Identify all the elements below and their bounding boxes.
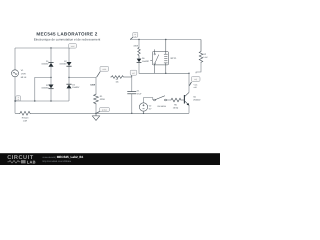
node junction (14,101) [14,100,15,101]
svg-text:1N4007: 1N4007 [72,86,80,89]
svg-text:D5: D5 [142,57,146,60]
wire col2 mid to load [69,77,96,93]
svg-text:LAB: LAB [27,160,36,165]
label Q1 [193,95,201,101]
svg-text:60 Hz: 60 Hz [21,76,27,79]
svg-text:Rshunt: Rshunt [22,116,29,119]
wire left vertical top [14,48,16,70]
svg-text:170V: 170V [21,73,27,76]
resistor R3 (horizontal, mid) [110,76,131,79]
wire top-left rail [15,47,69,49]
svg-text:10 kΩ: 10 kΩ [173,107,179,110]
svg-text:630R: 630R [100,98,105,101]
node junction (139,39.5) [138,39,139,40]
resistor R1 (load, vertical zigzag) [94,94,99,105]
svg-text:1N4007: 1N4007 [59,63,67,66]
diode D4 (bridge col2 bottom, pointing up) [66,84,71,101]
label D5 [142,57,150,63]
node junction (51,101) [50,100,51,101]
diode D2 (bridge col2 top, pointing down) [66,48,71,84]
logo zigzag [8,161,21,164]
svg-text:1N4007: 1N4007 [41,87,49,90]
label D2 [59,60,67,65]
relay coil [164,53,168,55]
node junction (96,113.3) [95,113,96,114]
label R5 [173,104,179,110]
flag C (ground node) [97,108,110,114]
flag D (bridge output node) [97,66,109,77]
svg-text:10k: 10k [115,80,118,83]
label D3 [41,84,49,90]
capacitor C1 [127,92,136,94]
voltage source V1 [12,70,19,77]
ground [92,113,99,120]
svg-text:330R: 330R [133,44,138,47]
svg-text:R1: R1 [100,95,104,98]
svg-text:probe1: probe1 [102,108,107,111]
svg-text:47uF: 47uF [137,92,142,95]
svg-text:SW-MOM: SW-MOM [157,105,166,108]
footer banner [0,153,220,165]
flag E (cap top node) [130,70,137,77]
wire cap bottom [131,94,133,114]
label C1 [137,89,142,95]
wire V2 bottom [143,111,145,113]
label probe name [194,83,199,89]
relay RLY1 [150,40,168,74]
svg-text:1N4007: 1N4007 [41,62,49,65]
label R1 [100,95,105,101]
wire top-right rail [130,39,201,41]
relay switch pins [154,49,156,53]
diode D1 (bridge col1 top, pointing up) [48,48,53,85]
svg-text:630R: 630R [90,83,95,86]
label V2 [149,105,152,111]
wire cap column [131,77,133,92]
svg-text:C1: C1 [137,89,141,92]
label Rshunt [22,116,29,122]
label D4 [72,83,80,89]
node junction (189,73.3) [188,73,189,74]
node junction (166,39.5) [165,39,166,40]
svg-text:http://circuitlab.com/c26fa9a: http://circuitlab.com/c26fa9a [42,160,71,163]
node junction (143.5,113.3) [143,113,144,114]
wire left vertical bottom [14,77,16,114]
svg-text:coll.: coll. [194,86,198,89]
svg-text:Electronique de commutation et: Electronique de commutation et de redres… [34,38,101,42]
flag B (source low node) [15,96,21,102]
wire V2 top loop [144,98,153,103]
transistor Q1 (NPN) [184,73,189,113]
node junction (133.5,113.3) [131,113,132,114]
node junction (51,77.4) [50,77,51,78]
label V1 values [21,69,27,79]
relay switch lever [155,55,159,63]
flag G (collector node) [189,77,200,86]
svg-text:MEC545 LABORATOIRE 2: MEC545 LABORATOIRE 2 [36,31,97,36]
node junction (69,77.4) [68,77,69,78]
label R2 [203,53,208,59]
svg-text:1.4K: 1.4K [203,56,208,59]
logo mark square [21,160,26,163]
wire load bottom [95,105,97,114]
relay left pin [150,59,152,61]
diode D5 (flyback, pointing down) [137,59,189,74]
resistor R6 (small vertical, D5 branch) [138,40,141,59]
wire bottom rail [15,112,189,114]
node junction (51,48) [50,47,51,48]
svg-text:5V: 5V [149,108,152,111]
svg-text:2N2222: 2N2222 [193,98,201,101]
flag F (supply node) [130,32,138,39]
label D1 [41,60,49,66]
switch SW1 [154,96,170,101]
svg-text:R5: R5 [174,104,178,107]
svg-text:1.5R: 1.5R [23,119,28,122]
wire col1 mid branch [35,77,51,101]
svg-text:Q1: Q1 [193,95,197,98]
resistor R2 (vertical right) [196,40,203,74]
svg-text:V2: V2 [149,105,152,108]
svg-text:V1: V1 [21,69,24,72]
resistor R5 (horizontal, base) [170,98,184,102]
node junction (34.8,101) [34,100,35,101]
voltage source V2 (DC) [139,103,147,111]
flag A (top bridge node) [69,44,77,49]
svg-text:1N4007: 1N4007 [142,60,150,63]
svg-text:RLY1: RLY1 [171,57,177,60]
diode D3 (bridge col1 bottom, pointing down) [48,85,53,102]
svg-text:R2: R2 [203,53,207,56]
node junction (165.8,73.3) [165,73,166,74]
wire mid-low rail [15,100,69,102]
label R3 [115,78,118,83]
resistor Rshunt (horizontal zigzag) [19,111,31,115]
